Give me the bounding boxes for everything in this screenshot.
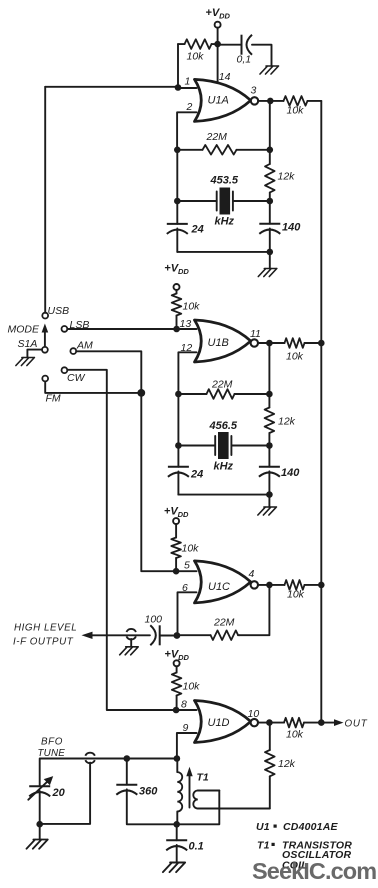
svg-text:24: 24 bbox=[191, 224, 204, 236]
label 10k bbox=[183, 301, 201, 313]
node AM/FM junction bbox=[137, 389, 145, 397]
svg-text:MODE: MODE bbox=[8, 324, 40, 336]
node stage2 bottom junction bbox=[266, 491, 273, 498]
svg-text:10: 10 bbox=[248, 708, 260, 720]
crystal 453.5 kHz bbox=[217, 188, 233, 215]
svg-text:U1B: U1B bbox=[208, 337, 229, 349]
wire stage2 bottom bbox=[178, 471, 269, 494]
wire tank top bbox=[40, 759, 177, 786]
switch pole S1A bbox=[42, 347, 48, 353]
svg-text:456.5: 456.5 bbox=[209, 420, 238, 432]
node U1C out junction bbox=[266, 582, 273, 589]
wire U1D in2 bbox=[177, 733, 197, 758]
connector feedthrough (BFO) bbox=[85, 753, 94, 763]
svg-text:10k: 10k bbox=[286, 351, 304, 363]
label U1A bbox=[208, 95, 229, 107]
svg-text:9: 9 bbox=[183, 722, 189, 734]
svg-text:4: 4 bbox=[249, 568, 255, 580]
svg-text:DD: DD bbox=[178, 653, 189, 662]
svg-text:100: 100 bbox=[145, 614, 163, 626]
capacitor 140 (stage1) bbox=[259, 201, 280, 234]
wire feedback U1A in1 bbox=[45, 44, 196, 88]
capacitor 24 (stage2) bbox=[168, 467, 189, 477]
wire CW rail bbox=[67, 370, 176, 710]
wire pin5 to gate bbox=[176, 570, 196, 572]
output bubble U1B pin11 bbox=[251, 339, 258, 346]
label 10k bbox=[187, 51, 205, 63]
svg-text:T1: T1 bbox=[257, 839, 270, 851]
svg-text:453.5: 453.5 bbox=[210, 175, 239, 187]
resistor 12k (stage1) bbox=[265, 150, 275, 201]
label U1B bbox=[208, 337, 229, 349]
wire U1A in2 bbox=[177, 112, 196, 150]
ground (stage2) bbox=[258, 507, 277, 515]
wire stage1 right net bbox=[269, 101, 271, 150]
wire stage2 right net bbox=[268, 343, 270, 394]
wire to ground stage2 bbox=[268, 495, 270, 507]
svg-text:3: 3 bbox=[251, 85, 257, 97]
wire 0.1 to ground bbox=[176, 845, 178, 863]
resistor 10k (U1A out) bbox=[270, 96, 321, 106]
power +VDD (stage 1) bbox=[205, 7, 230, 28]
label LSB bbox=[70, 319, 90, 331]
switch throw LSB bbox=[62, 326, 68, 332]
pin 2 label bbox=[186, 101, 193, 113]
node rail join stage2 bbox=[318, 340, 325, 347]
svg-text:0.1: 0.1 bbox=[189, 841, 204, 853]
svg-text:U1D: U1D bbox=[208, 717, 230, 729]
node U1B out junction bbox=[266, 340, 273, 347]
svg-text:140: 140 bbox=[282, 222, 301, 234]
pin 3 label bbox=[251, 85, 257, 97]
label 24 bbox=[191, 224, 204, 236]
svg-text:10k: 10k bbox=[287, 105, 305, 117]
inductor T1 secondary bbox=[193, 791, 269, 809]
pin 10 label bbox=[248, 708, 260, 720]
capacitor 360 bbox=[116, 785, 137, 795]
svg-text:20: 20 bbox=[52, 787, 66, 799]
node 22M left bbox=[174, 147, 181, 154]
switch throw USB bbox=[42, 313, 48, 319]
wire xtal2 row right bbox=[232, 445, 270, 447]
pin 6 label bbox=[182, 582, 188, 594]
wire 360 drop bbox=[126, 759, 128, 785]
svg-text:AM: AM bbox=[76, 340, 93, 352]
wire U1D out bbox=[258, 722, 269, 724]
node 22M left (pin12 net) bbox=[175, 391, 182, 398]
label 22M bbox=[213, 617, 235, 629]
label 24 bbox=[190, 468, 203, 480]
wire pin8 to gate bbox=[176, 709, 196, 711]
label S1A bbox=[18, 338, 38, 350]
label T1 bbox=[197, 772, 209, 784]
label MODE bbox=[8, 324, 40, 336]
note OSCILLATOR bbox=[282, 849, 351, 861]
svg-text:8: 8 bbox=[181, 699, 187, 711]
label 22M bbox=[211, 379, 233, 391]
svg-text:U1A: U1A bbox=[208, 95, 229, 107]
NOR gate U1A bbox=[195, 79, 251, 121]
svg-text:kHz: kHz bbox=[214, 460, 234, 472]
wire IF line bbox=[87, 634, 150, 636]
label 456.5 bbox=[209, 420, 238, 432]
pin 8 label bbox=[181, 699, 187, 711]
arrow IF output bbox=[82, 632, 93, 639]
wire 22M drop bbox=[240, 585, 270, 635]
wire AM bbox=[76, 351, 141, 393]
node U1A out junction bbox=[267, 98, 274, 105]
pin 1 label bbox=[185, 76, 191, 88]
wire to ground varcap bbox=[39, 824, 41, 839]
label kHz bbox=[215, 216, 235, 228]
output bubble U1D pin10 bbox=[251, 719, 258, 726]
wire cap to ground bbox=[252, 45, 272, 66]
resistor 22M (U1B feedback) bbox=[178, 389, 269, 399]
wire USB rail bbox=[44, 87, 46, 313]
switch throw AM bbox=[70, 348, 76, 354]
ground (IF jack) bbox=[120, 647, 139, 655]
NOR gate U1D bbox=[195, 701, 251, 743]
svg-text:0,1: 0,1 bbox=[237, 54, 252, 66]
label HIGH LEVEL bbox=[14, 623, 77, 634]
resistor 10k (U1B pullup) bbox=[172, 290, 182, 329]
wire varcap to bottom bbox=[39, 791, 41, 825]
pin 11 label bbox=[250, 328, 261, 340]
node U1D out junction bbox=[266, 719, 273, 726]
switch arm S1A (arrow up) bbox=[42, 324, 49, 347]
svg-text:SeekIC.com: SeekIC.com bbox=[252, 858, 376, 884]
ground (stage1) bbox=[258, 269, 277, 277]
svg-text:CD4001AE: CD4001AE bbox=[283, 821, 339, 833]
node U1C pin5 junction bbox=[173, 568, 180, 575]
capacitor 0.1 (VDD bypass) bbox=[220, 35, 253, 55]
resistor 12k (stage4) bbox=[265, 723, 275, 809]
NOR gate U1B bbox=[195, 320, 251, 362]
node IF junction bbox=[174, 632, 181, 639]
wire LSB to U1B pin13 bbox=[67, 328, 176, 330]
label 10k bbox=[286, 351, 304, 363]
label FM bbox=[46, 393, 61, 405]
pin 14 label bbox=[219, 71, 231, 83]
wire cap24 to bottom bbox=[176, 229, 178, 252]
ground (switch) bbox=[16, 358, 35, 366]
label 10k bbox=[287, 105, 305, 117]
svg-text:22M: 22M bbox=[211, 379, 233, 391]
svg-text:DD: DD bbox=[178, 267, 189, 276]
label U1D bbox=[208, 717, 230, 729]
svg-text:OUT: OUT bbox=[345, 718, 368, 729]
variable capacitor 20 (BFO tune) bbox=[28, 776, 53, 800]
svg-text:10k: 10k bbox=[183, 681, 201, 693]
wire FM bbox=[45, 381, 141, 393]
power +VDD (stage 2) bbox=[164, 263, 189, 291]
label 10k bbox=[182, 543, 200, 555]
svg-text:22M: 22M bbox=[206, 131, 228, 143]
label TUNE bbox=[38, 748, 66, 759]
svg-text:HIGH LEVEL: HIGH LEVEL bbox=[14, 623, 77, 634]
wire xtal row left bbox=[177, 150, 216, 224]
label USB bbox=[48, 305, 70, 317]
capacitor 140 (stage2) bbox=[259, 446, 280, 477]
svg-text:22M: 22M bbox=[213, 617, 235, 629]
resistor 10k (U1D out) bbox=[269, 718, 321, 728]
wire to ground stage1 bbox=[269, 252, 271, 269]
capacitor 0.1 (bottom) bbox=[166, 824, 187, 850]
note U1 = CD4001AE bbox=[256, 821, 339, 833]
svg-text:5: 5 bbox=[184, 560, 190, 572]
wire 360 to bottom bbox=[127, 789, 219, 824]
label 20 bbox=[52, 787, 66, 799]
pin 12 label bbox=[181, 342, 193, 354]
label 140 bbox=[281, 467, 300, 479]
svg-text:FM: FM bbox=[46, 393, 61, 405]
switch throw FM bbox=[42, 376, 48, 382]
svg-text:140: 140 bbox=[281, 467, 300, 479]
wire U1B in2 bbox=[178, 352, 196, 394]
node U1D pin8 junction bbox=[173, 707, 180, 714]
svg-text:DD: DD bbox=[219, 12, 230, 21]
label 360 bbox=[139, 786, 158, 798]
label 22M bbox=[206, 131, 228, 143]
wire +VDD to junction bbox=[217, 28, 219, 44]
pin 4 label bbox=[249, 568, 255, 580]
NOR gate U1C bbox=[195, 561, 251, 603]
svg-text:DD: DD bbox=[178, 510, 189, 519]
arrow OUT bbox=[334, 719, 344, 726]
inductor T1 primary bbox=[177, 759, 182, 825]
svg-text:BFO: BFO bbox=[41, 737, 63, 748]
wire U1B out bbox=[258, 342, 269, 344]
resistor 10k (U1A pullup) bbox=[178, 39, 218, 49]
label 453.5 bbox=[210, 175, 239, 187]
label 0,1 bbox=[237, 54, 252, 66]
wire pin 14 stub bbox=[217, 44, 219, 83]
output bubble U1C pin4 bbox=[251, 581, 258, 588]
pin 13 label bbox=[180, 318, 192, 330]
svg-text:10k: 10k bbox=[182, 543, 200, 555]
switch throw CW bbox=[62, 367, 68, 373]
label 12k bbox=[278, 758, 296, 770]
node rail join stage3 bbox=[318, 582, 325, 589]
svg-text:24: 24 bbox=[190, 468, 203, 480]
node tank/pin9 junction bbox=[174, 755, 181, 762]
resistor 10k (U1D pullup) bbox=[172, 666, 182, 710]
capacitor 100 (IF coupling) bbox=[150, 625, 177, 645]
label 140 bbox=[282, 222, 301, 234]
svg-text:I-F OUTPUT: I-F OUTPUT bbox=[13, 636, 74, 647]
label 12k bbox=[278, 171, 296, 183]
svg-text:10k: 10k bbox=[183, 301, 201, 313]
wire stage1 bottom bbox=[177, 228, 269, 252]
note COIL bbox=[282, 859, 308, 871]
svg-text:U1: U1 bbox=[256, 821, 270, 833]
label I-F OUTPUT bbox=[13, 636, 74, 647]
svg-text:1: 1 bbox=[185, 76, 191, 88]
pin 5 label bbox=[184, 560, 190, 572]
wire U1C in2 bbox=[178, 592, 197, 636]
label 10k bbox=[286, 729, 304, 741]
wire pin13 to gate bbox=[177, 328, 197, 330]
arrow T1 core (adjustable) bbox=[186, 767, 192, 808]
wire feedthrough stub bbox=[40, 763, 90, 824]
label 10k bbox=[287, 589, 305, 601]
power +VDD (stage 4) bbox=[164, 648, 189, 666]
resistor 10k (U1C pullup) bbox=[171, 524, 181, 571]
resistor 10k (U1B out) bbox=[269, 338, 321, 348]
node xtal left bbox=[174, 198, 181, 205]
wire U1C out bbox=[258, 584, 269, 586]
ground (bypass cap) bbox=[260, 66, 279, 74]
wire jack to ground bbox=[130, 639, 132, 647]
svg-text:14: 14 bbox=[219, 71, 231, 83]
wire pole to ground bbox=[27, 350, 42, 358]
svg-text:10k: 10k bbox=[187, 51, 205, 63]
power +VDD (stage 3) bbox=[164, 506, 189, 525]
wire secondary return bbox=[218, 791, 220, 825]
label 100 bbox=[145, 614, 163, 626]
node bottom junction (0.1/T1) bbox=[173, 821, 180, 828]
svg-text:USB: USB bbox=[48, 305, 70, 317]
label 0.1 bbox=[189, 841, 204, 853]
node 22M right bbox=[267, 147, 274, 154]
svg-text:10k: 10k bbox=[287, 589, 305, 601]
svg-text:U1C: U1C bbox=[208, 581, 230, 593]
node xtal2 right bbox=[266, 442, 273, 449]
wire xtal2 row left bbox=[178, 394, 215, 467]
node U1B pin13 junction bbox=[173, 326, 180, 333]
label kHz bbox=[214, 460, 234, 472]
ground (0.1 cap) bbox=[163, 863, 185, 873]
wire OUT stub bbox=[321, 722, 337, 724]
pin 9 label bbox=[183, 722, 189, 734]
wire U1A out bbox=[258, 100, 270, 102]
node tank/360 junction bbox=[124, 755, 131, 762]
wire AM/FM to U1C pin5 bbox=[141, 393, 176, 571]
svg-text:2: 2 bbox=[186, 101, 193, 113]
svg-text:11: 11 bbox=[250, 328, 261, 340]
svg-text:12k: 12k bbox=[278, 416, 296, 428]
ground (BFO) bbox=[26, 840, 47, 849]
wire xtal row right bbox=[233, 200, 270, 202]
svg-text:TUNE: TUNE bbox=[38, 748, 66, 759]
resistor 22M (U1A feedback) bbox=[177, 145, 269, 155]
label BFO bbox=[41, 737, 63, 748]
svg-text:360: 360 bbox=[139, 786, 158, 798]
svg-text:kHz: kHz bbox=[215, 216, 235, 228]
watermark SeekIC.com bbox=[252, 858, 376, 884]
label U1C bbox=[208, 581, 230, 593]
node xtal right bbox=[267, 198, 274, 205]
wire output rail bbox=[320, 101, 322, 723]
label 10k bbox=[183, 681, 201, 693]
svg-text:12: 12 bbox=[181, 342, 193, 354]
svg-text:CW: CW bbox=[67, 372, 86, 384]
output bubble U1A pin3 bbox=[251, 97, 258, 104]
node varcap bottom junction bbox=[36, 821, 43, 828]
svg-text:12k: 12k bbox=[278, 758, 296, 770]
svg-text:6: 6 bbox=[182, 582, 188, 594]
label OUT bbox=[345, 718, 368, 729]
resistor 10k (U1C out) bbox=[269, 580, 321, 590]
node 22M right bbox=[266, 391, 273, 398]
node junction VDD/R/C (U1A pin14) bbox=[214, 41, 221, 48]
label AM bbox=[76, 340, 93, 352]
connector jack (IF output) bbox=[126, 629, 135, 639]
node xtal2 left bbox=[175, 442, 182, 449]
resistor 12k (stage2) bbox=[265, 394, 275, 446]
svg-text:12k: 12k bbox=[278, 171, 296, 183]
capacitor 24 (stage1) bbox=[167, 224, 188, 234]
label 12k bbox=[278, 416, 296, 428]
wire cap24-2 to bottom bbox=[177, 471, 179, 494]
label CW bbox=[67, 372, 86, 384]
svg-text:S1A: S1A bbox=[18, 338, 38, 350]
node U1A pin1 junction bbox=[175, 84, 182, 91]
node stage1 bottom junction bbox=[267, 249, 274, 256]
crystal 456.5 kHz bbox=[215, 432, 231, 459]
node rail join OUT bbox=[318, 719, 325, 726]
note T1 = TRANSISTOR bbox=[257, 839, 352, 851]
svg-text:T1: T1 bbox=[197, 772, 209, 784]
resistor 22M (U1C feedback) bbox=[177, 630, 240, 640]
svg-text:10k: 10k bbox=[286, 729, 304, 741]
